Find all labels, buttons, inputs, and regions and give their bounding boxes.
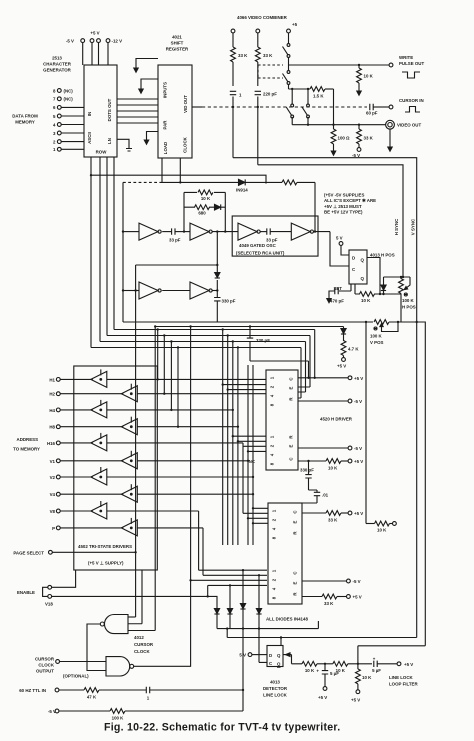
IC U5 4520 H driver [266,370,298,470]
svg-text:LINE LOCK: LINE LOCK [263,693,287,698]
driver T5 H16 [91,433,107,451]
svg-text:330 pF: 330 pF [300,468,314,473]
svg-text:ENABLE: ENABLE [17,590,35,595]
svg-text:V4: V4 [50,492,56,497]
Q output wire with arrow [283,655,302,664]
svg-text:Q: Q [361,258,365,263]
IC U7 4013 detector [267,646,283,667]
svg-text:10 K: 10 K [364,74,374,79]
svg-text:H8: H8 [49,425,55,430]
svg-text:1.5 K: 1.5 K [313,94,324,99]
svg-text:LN: LN [107,138,112,144]
svg-text:Fig. 10-22. Schematic for TVT-: Fig. 10-22. Schematic for TVT-4 tv typew… [104,722,340,734]
svg-text:-5 V: -5 V [354,446,362,451]
svg-text:2513: 2513 [52,56,62,61]
svg-text:+5 V: +5 V [354,376,363,381]
pin2 terminal [57,140,61,144]
svg-text:10 K: 10 K [305,668,315,673]
feedback wire top [162,181,315,183]
svg-text:100 K: 100 K [370,334,383,339]
svg-text:DATA FROM: DATA FROM [12,113,38,118]
wire row A col c1 [223,330,266,546]
G2 output wire [133,665,190,667]
wire H4 col c3 [107,342,266,546]
wire CLOCK drop [179,158,181,182]
power terminal -5V [81,39,85,43]
input pin 6 wire [61,106,84,108]
pin7 terminal [57,97,61,101]
svg-text:-5 V: -5 V [354,399,362,404]
svg-text:SHIFT: SHIFT [171,41,184,46]
svg-text:REGISTER: REGISTER [166,47,189,52]
bus line 3 [100,342,306,393]
wire +5V 33K bottom [302,596,322,598]
ground arrowheads [134,64,149,144]
svg-text:10 K: 10 K [201,196,211,201]
common rail [217,621,318,629]
svg-text:+5 V: +5 V [354,459,363,464]
svg-text:33 K: 33 K [328,518,338,523]
svg-text:+: + [316,669,319,674]
svg-text:V18: V18 [45,602,53,607]
driver T6 V1 [121,451,137,469]
dots-out wire 1 [117,98,158,100]
rail to V sync vertical [233,158,417,638]
LN wire to ground [117,139,129,148]
driver T3 H4 [91,400,107,418]
ground stub 3 [147,132,159,137]
feedback from V line [358,646,425,664]
driver T4 H8 [121,417,137,435]
terminal V4 [56,492,60,496]
ground stub 2 [141,79,158,85]
svg-text:V8: V8 [50,509,56,514]
capacitor (1) [230,91,236,94]
terminal V1 [56,459,60,463]
svg-text:33 K: 33 K [263,53,273,58]
svg-text:4013: 4013 [270,680,280,685]
series capacitor [146,687,149,693]
wire +5V top [298,377,348,379]
diode in 680 leg [215,204,221,210]
ground arrowhead 100ohm [331,147,335,155]
svg-text:V2: V2 [50,475,56,480]
svg-text:CURSOR: CURSOR [134,642,154,647]
svg-text:4012: 4012 [134,635,144,640]
switch S3 [286,104,293,118]
power terminal +5V (two) [90,39,94,43]
inverter A1 [139,223,161,240]
svg-text:(+5 V ⊥ SUPPLY): (+5 V ⊥ SUPPLY) [88,561,124,566]
terminal H4 [56,408,60,412]
diode above 4.7K [343,327,345,329]
svg-text:100 Ω: 100 Ω [338,136,351,141]
driver T8 V4 [121,484,137,502]
svg-text:5 µF: 5 µF [330,671,339,676]
NAND gate G2 (right pointing) [106,657,130,676]
svg-text:680: 680 [198,211,206,216]
driver T1 H1 [91,369,107,387]
terminal 33K pullup 1 [231,29,235,33]
resistor 47K [84,688,99,693]
rail from load line [91,175,266,183]
svg-text:+5 V: +5 V [351,698,360,703]
switch S4 [302,104,309,118]
svg-text:(+5V -5V SUPPLIES: (+5V -5V SUPPLIES [324,192,364,197]
capacitor 220 pF [255,91,261,94]
power terminal -12V [106,39,110,43]
resistor 100 ohm [331,129,336,144]
wire row B col c2 [228,336,266,546]
svg-text:E: E [289,386,294,389]
dots-out wire 3 [117,110,158,112]
svg-text:LINE LOCK: LINE LOCK [389,675,413,680]
switch S2 [283,71,290,85]
svg-text:CHARACTER: CHARACTER [43,62,72,67]
wire input A5 [123,290,139,292]
2513 row vertical d [113,157,115,330]
svg-text:BE +5V 12V TYPE): BE +5V 12V TYPE) [324,210,363,215]
svg-text:Q: Q [277,662,281,667]
svg-text:H1: H1 [49,377,55,382]
shunt resistor 10K [357,663,359,665]
terminal CURSOR IN [389,105,393,109]
pin8 terminal [57,89,61,93]
svg-text:WRITE: WRITE [399,55,413,60]
svg-text:IN914: IN914 [236,188,248,193]
wire cap2 down to rail [257,107,259,165]
svg-text:(SELECTED RCA UNIT): (SELECTED RCA UNIT) [236,251,285,256]
svg-text:+5 V: +5 V [354,511,363,516]
IC U2 4021 shift register [158,65,192,158]
diode D1 [216,605,218,608]
svg-text:+5 V: +5 V [337,364,346,369]
terminal V2 [56,475,60,479]
write pulse waveform icon [402,72,420,78]
svg-text:-5 V: -5 V [66,38,74,43]
long column to NAND b [190,327,192,667]
svg-text:Q: Q [277,653,281,658]
wire H16 col c5 [107,443,268,513]
resistor 10K set [355,284,380,294]
inverter A5 [139,282,161,299]
svg-text:V1: V1 [50,459,56,464]
terminal H2 [56,392,60,396]
svg-text:CURSOR IN: CURSOR IN [399,98,424,103]
svg-text:NC: NC [249,459,256,464]
svg-text:4502 TRI-STATE DRIVERS: 4502 TRI-STATE DRIVERS [78,544,132,549]
IC U6 4520 V counter [268,503,302,604]
wire H2 to counter pin4 [137,393,266,395]
svg-text:-5 V: -5 V [353,579,361,584]
svg-text:33 K: 33 K [364,136,374,141]
dots-out wire 5 [117,122,158,124]
switch S1 [283,44,290,58]
svg-text:33 K: 33 K [238,53,248,58]
wire H1 to counter pin1 [107,378,266,380]
osc box left vertical [122,182,124,322]
wire osc to clock [330,232,349,266]
inverter A4 [291,223,313,240]
svg-text:33 pF: 33 pF [266,238,278,243]
svg-text:SET: SET [333,286,342,291]
terminal V8 [56,509,60,513]
potentiometer 100K H POS [400,277,402,279]
dots-out wire 4 [117,116,158,118]
wire V1 col c6 [137,365,268,545]
NAND gate G1 (left pointing) [104,615,128,634]
2513 row vertical c [106,157,108,336]
svg-text:ROW: ROW [96,150,108,155]
wire H8 col c4 [137,348,266,546]
bus 4 drop to H8 [177,348,179,427]
svg-text:P: P [52,526,55,531]
svg-text:.01: .01 [322,493,329,498]
node dot [232,106,234,108]
svg-text:D: D [269,653,272,658]
input pin 3 wire [61,132,84,134]
loop wire row2 [136,265,218,617]
series capacitor 5uF [374,661,377,667]
svg-text:Q: Q [361,276,365,281]
bus line 4 [91,348,301,399]
svg-text:CURSOR: CURSOR [35,657,55,662]
resistor 10K to ground [358,65,360,68]
svg-text:4013 H POS: 4013 H POS [370,253,395,258]
svg-text:INPUTS: INPUTS [163,82,168,98]
H pos top rail [384,276,411,278]
resistor 100K [110,709,125,714]
svg-text:D: D [352,256,355,261]
wire P down to counter2 [137,528,267,575]
dashed control lines [258,64,283,66]
wire power drops [83,43,108,66]
svg-text:470 pF: 470 pF [330,299,344,304]
svg-text:+5: +5 [292,22,298,27]
inverter A3 [238,223,260,240]
resistor 33K (1) [232,33,234,47]
svg-text:GENERATOR: GENERATOR [43,68,71,73]
svg-text:CLOCK: CLOCK [38,663,54,668]
svg-text:LOAD: LOAD [163,142,168,154]
terminal +5V under 4.7K [342,358,346,362]
svg-text:5 V: 5 V [336,236,343,241]
node dot [257,106,259,108]
svg-text:ALL IC'S EXCEPT ✱ ARE: ALL IC'S EXCEPT ✱ ARE [324,198,376,203]
svg-text:CLOCK: CLOCK [183,136,188,152]
capacitor 33pF (1) [162,231,171,233]
osc box bottom rail [123,321,373,323]
pin4 terminal [57,123,61,127]
svg-text:V POS: V POS [370,340,383,345]
wire input A1 [123,231,139,233]
gated osc box [232,216,318,256]
svg-text:60 pF: 60 pF [366,111,378,116]
terminal VIDEO OUT double circle [388,123,392,127]
svg-text:ASCII: ASCII [87,132,92,144]
diode IN914 [239,179,246,185]
G1 input stubs [128,616,136,618]
G1 output loop [87,624,106,671]
SET capacitor 470 pF [339,284,351,291]
diode row2 [215,273,220,278]
top rail with 1.5K [289,88,311,90]
wire V8 down to counter2 [107,511,267,570]
svg-text:LOOP FILTER: LOOP FILTER [389,682,418,687]
svg-text:DOTS OUT: DOTS OUT [107,98,112,121]
svg-text:OUTPUT: OUTPUT [36,669,54,674]
capacitor 330 pF [214,298,220,301]
terminal 33K pullup 2 [256,29,260,33]
svg-text:H2: H2 [49,392,55,397]
svg-text:4520 H DRIVER: 4520 H DRIVER [320,417,353,422]
counter2 pin feed from G2 [191,579,267,581]
svg-text:60 HZ TTL IN: 60 HZ TTL IN [19,688,46,693]
pin6 terminal [57,106,61,110]
inverter A6 [190,282,212,299]
osc box right vertical [314,182,316,231]
svg-text:E: E [289,444,294,447]
driver T10 P [121,518,137,536]
resistor 10K b [333,661,348,666]
terminal H8 [56,425,60,429]
ground arrowhead video out [388,143,392,151]
terminal P [56,526,60,530]
svg-text:10 K: 10 K [362,675,372,680]
resistor 33K (2) [257,33,259,47]
wire -5V mid [302,580,346,582]
svg-text:5 V: 5 V [239,653,246,658]
svg-text:+5 V: +5 V [90,31,99,36]
svg-text:100 K: 100 K [402,298,415,303]
wire 326 line [155,326,343,328]
driver T9 V8 [91,501,107,519]
svg-text:V SYNC: V SYNC [411,218,416,235]
ground under video out [389,129,391,143]
drivers box [74,366,158,570]
svg-text:33 K: 33 K [324,601,334,606]
diode H pos [383,277,385,285]
bus 3 drop to H4 [170,342,172,410]
svg-text:MEMORY: MEMORY [15,120,35,125]
svg-text:330 pF: 330 pF [256,338,270,343]
resistor 10K a [302,661,317,666]
svg-text:4049 GATED OSC: 4049 GATED OSC [239,243,277,248]
resistor feedback top [282,180,297,185]
ground stub 1 [136,59,158,65]
svg-text:H POS: H POS [402,305,416,310]
ground under LN [126,149,132,152]
wire -5V [298,400,348,402]
inverter A2 [190,223,212,240]
wire V2 col c7 [107,365,268,545]
svg-text:+: + [373,657,376,662]
svg-text:220 pF: 220 pF [263,92,277,97]
svg-text:H SYNC: H SYNC [394,218,399,235]
svg-text:DETECTOR: DETECTOR [263,686,288,691]
.01 capacitor [314,492,320,495]
wire cap1 down to rail [232,107,234,158]
svg-text:47 K: 47 K [87,695,97,700]
330 pF ripple cap [307,460,309,462]
svg-text:+5 V: +5 V [318,695,327,700]
svg-text:+5V ⊥ 2513 MUST: +5V ⊥ 2513 MUST [324,204,362,209]
diode D2 [229,584,231,586]
svg-text:100 K: 100 K [112,716,125,721]
shunt capacitor 5uF [324,663,326,665]
IC U1 2513 character generator [84,65,117,157]
terminal WRITE PULSE OUT [389,63,393,67]
330 pF clock cap from osc [249,327,251,339]
wire V4 col to counter2 [137,493,253,495]
wire output A4 [314,231,331,233]
svg-text:PULSE OUT: PULSE OUT [399,61,424,66]
wire -5V group2 [298,447,348,449]
wire to diode / pot [380,293,401,295]
svg-text:(NC): (NC) [64,97,74,102]
svg-text:(NC): (NC) [64,88,74,93]
wire LOAD drop [161,158,163,182]
svg-text:H16: H16 [47,441,56,446]
pin1 terminal [57,147,61,151]
input pin 1 wire [61,148,84,150]
input pin 4 wire [61,124,84,126]
C input from rail [259,629,267,663]
dashed feedback segment [123,181,162,183]
svg-text:4.7 K: 4.7 K [348,347,359,352]
svg-text:+5 V: +5 V [404,662,413,667]
svg-text:-12 V: -12 V [112,38,123,43]
wire 10K to open terminal [366,523,375,525]
bus line 2 [107,336,310,388]
wire V pot down line [365,322,367,524]
input pin 2 wire [61,141,84,143]
resistor 4.7K [341,341,346,356]
svg-text:+5 V: +5 V [353,595,362,600]
rail to H sync vertical [258,165,403,277]
wire +5V with 10K [298,460,326,462]
svg-text:5 µF: 5 µF [372,668,381,673]
feedback line to detector [227,629,417,638]
capacitor 33pF (2) [260,231,267,233]
terminal H1 [56,378,60,382]
svg-text:ALL DIODES IN4148: ALL DIODES IN4148 [266,617,308,622]
wire +5V 33K top [302,512,326,514]
diode D3 [242,569,244,571]
bus 2 drop to H2 [163,336,165,394]
long column to NAND a [154,327,156,631]
svg-text:330 pF: 330 pF [222,299,236,304]
svg-text:ADDRESS: ADDRESS [17,437,39,442]
svg-text:10 K: 10 K [377,528,387,533]
IC U4 4013 H POS [349,250,367,284]
wire A5 to A6 [162,290,190,292]
svg-text:4021: 4021 [172,35,182,40]
vertical node line [216,232,218,297]
dots-out wire 2 [117,104,158,106]
bus line 1 [114,330,315,378]
svg-text:CLOCK: CLOCK [134,649,150,654]
svg-text:E: E [293,581,298,584]
resistor 33K to -5V [358,124,360,126]
bottom rail of switches [292,117,385,125]
counter2 pin feed from enable [208,585,267,596]
driver T7 V2 [91,467,107,485]
svg-text:PAR: PAR [163,120,168,130]
svg-text:TO MEMORY: TO MEMORY [13,447,40,452]
pin5 terminal [57,114,61,118]
cursor waveform icon [405,107,420,113]
